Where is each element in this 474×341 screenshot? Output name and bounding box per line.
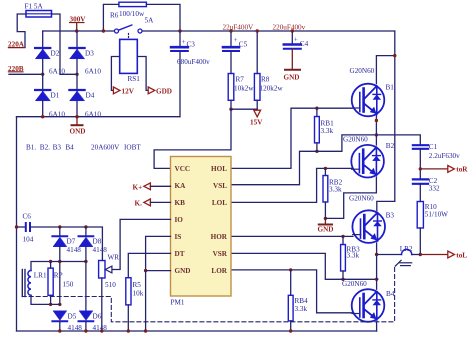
svg-text:6A10: 6A10: [49, 68, 65, 76]
wire DT to R5: [128, 253, 170, 277]
svg-text:B2.: B2.: [40, 144, 50, 152]
wire C1 to toR node: [419, 149, 421, 179]
svg-text:RS1: RS1: [128, 75, 141, 83]
svg-text:4148: 4148: [93, 324, 108, 332]
svg-text:104: 104: [23, 236, 34, 244]
svg-text:G20N60: G20N60: [343, 136, 368, 144]
arrow 12V: [113, 87, 120, 94]
svg-text:G20N60: G20N60: [349, 195, 374, 203]
svg-text:R6: R6: [110, 12, 119, 20]
resistor RP: [48, 268, 53, 295]
wire B4 emitter to bottom rail: [376, 322, 378, 331]
svg-text:KB: KB: [175, 199, 186, 207]
svg-text:VSL: VSL: [213, 182, 227, 190]
wire fuse right down to bridge AC node: [52, 14, 78, 74]
svg-text:3.3k: 3.3k: [295, 305, 308, 313]
wire +300V right rail drop: [394, 31, 396, 201]
svg-text:+: +: [234, 36, 238, 44]
wire R6 right: [146, 4, 180, 31]
wire bridge left column: [42, 31, 44, 117]
svg-text:F1 5A: F1 5A: [25, 3, 44, 11]
wire LOR to B4 gate: [231, 270, 352, 313]
svg-text:2.2uF630v: 2.2uF630v: [429, 152, 460, 160]
wire D8 anode column: [85, 247, 87, 314]
wire bridge bottom rail: [17, 116, 180, 118]
wire B3 emitter to LR2 node and B4 collector: [376, 243, 378, 289]
svg-text:toR: toR: [456, 166, 468, 174]
diode D1: [35, 90, 50, 101]
svg-text:B4: B4: [65, 144, 74, 152]
resistor RB1: [315, 107, 318, 110]
resistor RB3: [341, 235, 344, 238]
wire fuse left to 220A: [17, 14, 26, 47]
svg-text:120k2w: 120k2w: [260, 85, 284, 93]
wire IO to WR wiper: [110, 219, 171, 269]
wire relay left to 12V: [111, 57, 119, 91]
svg-text:20A600V: 20A600V: [91, 144, 120, 152]
svg-text:IS: IS: [175, 233, 182, 241]
resistor RB2: [324, 167, 327, 170]
svg-text:332: 332: [429, 185, 440, 193]
svg-text:VCC: VCC: [175, 165, 191, 173]
svg-text:VSR: VSR: [213, 250, 228, 258]
svg-text:R8: R8: [261, 76, 270, 84]
svg-text:D7: D7: [67, 238, 76, 246]
svg-text:150: 150: [63, 281, 74, 289]
svg-text:+: +: [182, 38, 186, 46]
wire LR1 bottom link: [31, 295, 60, 304]
svg-text:OND: OND: [70, 128, 86, 136]
svg-text:B1: B1: [386, 84, 395, 92]
wire B3 collector to rail: [377, 201, 395, 210]
svg-text:HOL: HOL: [211, 165, 227, 173]
wire GND pin: [146, 270, 171, 272]
resistor RB4: [290, 270, 292, 295]
svg-text:D5: D5: [68, 313, 77, 321]
diode D3: [69, 48, 84, 59]
wire VSR to RB3 and B4 collector: [231, 253, 378, 279]
svg-text:C1: C1: [429, 143, 438, 151]
svg-text:51/10W: 51/10W: [425, 211, 448, 219]
svg-text:LOL: LOL: [212, 199, 227, 207]
wire R7 bottom to 15V node: [230, 100, 232, 109]
svg-text:220uF400v: 220uF400v: [273, 23, 306, 31]
svg-text:D1: D1: [51, 92, 60, 100]
wire VSL to midpoint: [231, 135, 420, 185]
transistor B3: [352, 210, 385, 243]
svg-text:GND: GND: [175, 267, 191, 275]
svg-text:K.: K.: [135, 200, 143, 208]
wire IS down: [146, 236, 171, 331]
svg-text:GDD: GDD: [156, 88, 172, 96]
svg-text:G20N60: G20N60: [342, 280, 367, 288]
wire C6 to WR top: [30, 227, 102, 261]
transistor B2: [351, 145, 384, 178]
wire C3 bottom: [179, 51, 181, 117]
svg-text:12V: 12V: [122, 88, 135, 96]
relay RS1: [120, 39, 138, 73]
svg-text:D6: D6: [93, 313, 102, 321]
svg-text:5A: 5A: [145, 17, 155, 25]
diode D4: [69, 90, 84, 101]
svg-text:C6: C6: [23, 213, 32, 221]
svg-text:680uF400v: 680uF400v: [177, 58, 210, 66]
svg-text:C5: C5: [239, 40, 248, 48]
svg-text:22uF400V: 22uF400V: [223, 23, 255, 31]
svg-text:IOBT: IOBT: [124, 144, 141, 152]
svg-text:GND: GND: [318, 226, 334, 234]
svg-text:4148: 4148: [93, 246, 108, 254]
svg-text:toL: toL: [456, 251, 467, 259]
arrow 15V: [254, 110, 261, 117]
svg-text:B1.: B1.: [26, 144, 36, 152]
wire 300V rail: [43, 30, 115, 32]
LR2 core marks: [400, 262, 412, 264]
resistor R6: [119, 2, 146, 6]
svg-text:B2: B2: [386, 142, 395, 150]
dashed enclosure: [21, 268, 395, 322]
diode D8: [85, 227, 87, 236]
svg-text:3.3k: 3.3k: [329, 186, 342, 194]
diode D7: [59, 227, 61, 236]
wire HOR to B3 gate: [231, 235, 353, 237]
wire 220B to bridge: [9, 73, 43, 75]
inductor LR2: [377, 254, 402, 256]
svg-text:K+: K+: [133, 184, 143, 192]
svg-text:D4: D4: [86, 92, 95, 100]
wire bridge right column: [76, 31, 78, 117]
resistor R5: [126, 278, 131, 305]
wire B1 collector branch: [376, 56, 394, 84]
svg-text:GND: GND: [284, 74, 300, 82]
svg-text:C3: C3: [187, 41, 196, 49]
fuse F1: [26, 11, 52, 18]
capacitor C3: [179, 31, 181, 46]
svg-text:PM1: PM1: [171, 299, 185, 307]
wire B1 emitter to B2 collector: [375, 116, 377, 145]
diode D5: [52, 311, 67, 321]
wire bottom rail: [17, 330, 377, 332]
ground OND at bridge: [76, 117, 78, 125]
resistor R8: [256, 31, 258, 74]
transistor B4: [352, 289, 385, 322]
svg-text:+: +: [294, 36, 298, 44]
inductor LR1: [28, 271, 31, 296]
wire left rail: [16, 117, 18, 331]
diode D6: [79, 311, 94, 321]
wire B2 emitter to ground link: [325, 177, 376, 218]
node toR: [420, 168, 447, 170]
svg-text:4148: 4148: [68, 324, 83, 332]
wire VCC feed from R7: [154, 109, 231, 168]
svg-text:100/10w: 100/10w: [119, 10, 145, 18]
node toL: [420, 254, 447, 256]
svg-text:B4: B4: [386, 290, 395, 298]
svg-text:WR: WR: [108, 254, 120, 262]
svg-text:3.3k: 3.3k: [321, 127, 334, 135]
svg-text:4148: 4148: [67, 246, 82, 254]
wire R6 left: [103, 4, 119, 31]
svg-text:15V: 15V: [250, 119, 263, 127]
svg-text:IO: IO: [175, 216, 184, 224]
svg-text:RP: RP: [54, 272, 63, 280]
capacitor C1: [413, 144, 428, 146]
svg-text:LR2: LR2: [400, 245, 413, 253]
svg-text:6A10: 6A10: [85, 68, 101, 76]
wire relay right to GDD: [137, 57, 148, 91]
svg-text:G20N60: G20N60: [350, 67, 375, 75]
wire D7 anode column: [59, 247, 61, 305]
svg-text:HOR: HOR: [211, 233, 228, 241]
svg-text:510: 510: [105, 281, 116, 289]
svg-text:B3: B3: [386, 212, 395, 220]
svg-text:D8: D8: [93, 238, 102, 246]
svg-text:B3: B3: [53, 144, 62, 152]
svg-text:D3: D3: [85, 50, 94, 58]
ground GND under C4: [291, 49, 293, 70]
svg-text:DT: DT: [175, 250, 185, 258]
wire LR1 top link: [31, 262, 86, 271]
transistor B1: [352, 84, 385, 117]
diode D2: [35, 48, 50, 59]
op-amp U1 : IC PM1 body: [171, 157, 232, 297]
resistor R10: [419, 184, 421, 202]
svg-text:R7: R7: [236, 76, 245, 84]
svg-text:D2: D2: [51, 50, 60, 58]
svg-text:LR1: LR1: [34, 272, 47, 280]
potentiometer WR: [99, 261, 105, 279]
LR1 core: [21, 270, 23, 297]
wire LOL to B2 gate: [231, 168, 352, 202]
svg-text:R5: R5: [133, 281, 142, 289]
arrow GDD: [148, 87, 155, 94]
svg-text:3.3k: 3.3k: [347, 252, 360, 260]
svg-text:10k: 10k: [133, 290, 144, 298]
ground GND at RB2: [324, 218, 326, 224]
svg-text:LOR: LOR: [211, 267, 227, 275]
capacitor C2: [413, 178, 428, 180]
svg-text:C4: C4: [300, 40, 309, 48]
svg-text:KA: KA: [175, 182, 187, 190]
resistor R7: [230, 51, 232, 74]
wire HOL to B1 gate: [231, 108, 352, 168]
svg-text:10k2w: 10k2w: [234, 85, 254, 93]
